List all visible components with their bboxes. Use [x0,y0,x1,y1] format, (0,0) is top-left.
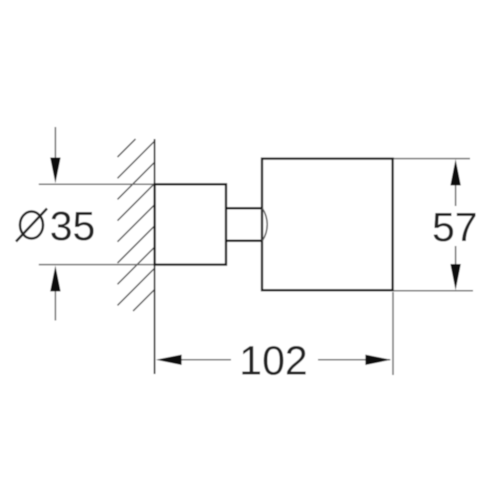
svg-text:35: 35 [50,203,96,249]
svg-text:102: 102 [239,338,307,384]
svg-text:57: 57 [432,204,478,250]
